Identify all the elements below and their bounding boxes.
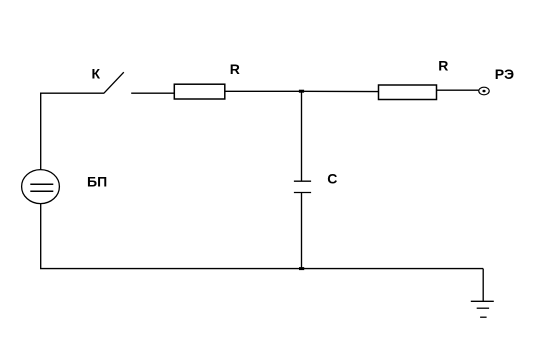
terminal РЭ (open circle with center dot) [479, 87, 489, 95]
resistor R1 (box) [174, 84, 225, 99]
wire: switch to resistor R1 [131, 92, 174, 94]
wire: bottom rail to ground [482, 269, 484, 302]
wire: node A to resistor R2 [302, 90, 379, 92]
svg-text:R: R [438, 58, 448, 74]
svg-text:К: К [92, 65, 101, 81]
wire: resistor R2 to terminal РЭ [437, 89, 479, 91]
svg-text:РЭ: РЭ [495, 66, 514, 82]
wire: bottom rail [40, 268, 483, 270]
svg-text:R: R [230, 61, 240, 77]
svg-text:БП: БП [87, 173, 107, 189]
svg-text:C: C [327, 171, 337, 187]
wire: top-left horizontal to switch [40, 92, 104, 94]
wire: left vertical from top corner down to power supply [40, 93, 42, 170]
wire: capacitor C down to bottom node [301, 193, 303, 269]
node A junction dot (top) [299, 90, 304, 93]
wire: left vertical from power supply down to bottom rail [40, 204, 42, 269]
ground [471, 301, 494, 317]
wire: resistor R1 to node A [225, 90, 302, 92]
bottom node junction dot [299, 267, 304, 270]
wire: node A down to capacitor C [301, 91, 303, 181]
switch K (open blade) [104, 72, 124, 93]
capacitor C (two plates) [294, 181, 311, 192]
resistor R2 (box) [379, 85, 437, 100]
power supply БП (circle with two horizontal bars) [22, 170, 60, 204]
